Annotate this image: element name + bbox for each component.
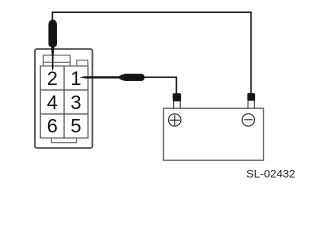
battery positive terminal post [174,101,181,108]
svg-text:4: 4 [47,92,58,114]
battery case [164,108,264,160]
test probe P2 body [122,74,145,81]
wire from probe P1 to battery negative terminal [52,12,251,94]
connector inner key tab (top left) [43,55,70,66]
battery positive symbol [169,114,181,126]
pin grid row line 2 [40,113,88,115]
battery positive terminal cap [173,93,181,101]
svg-text:SL-02432: SL-02432 [246,168,295,180]
svg-text:3: 3 [70,92,81,114]
pin grid row line 1 [40,89,88,91]
wire from probe P2 to battery positive terminal [143,77,176,94]
battery negative terminal post [248,101,254,109]
pin grid center vertical line [63,66,65,138]
battery negative symbol [242,114,254,126]
battery negative terminal cap [247,93,255,101]
connector inner key tab (top right) [77,60,88,66]
pin grid frame [40,66,88,138]
svg-text:5: 5 [70,116,81,138]
connector housing outline [35,49,93,148]
svg-text:1: 1 [70,68,81,90]
svg-text:2: 2 [47,68,58,90]
test probe P1 body (vertical, into pin 2) [48,20,57,48]
svg-text:6: 6 [47,116,58,138]
test probe P1 needle [51,46,55,72]
test probe P2 needle (horizontal, into pin 1) [80,74,123,80]
connector bottom tab [51,138,76,142]
